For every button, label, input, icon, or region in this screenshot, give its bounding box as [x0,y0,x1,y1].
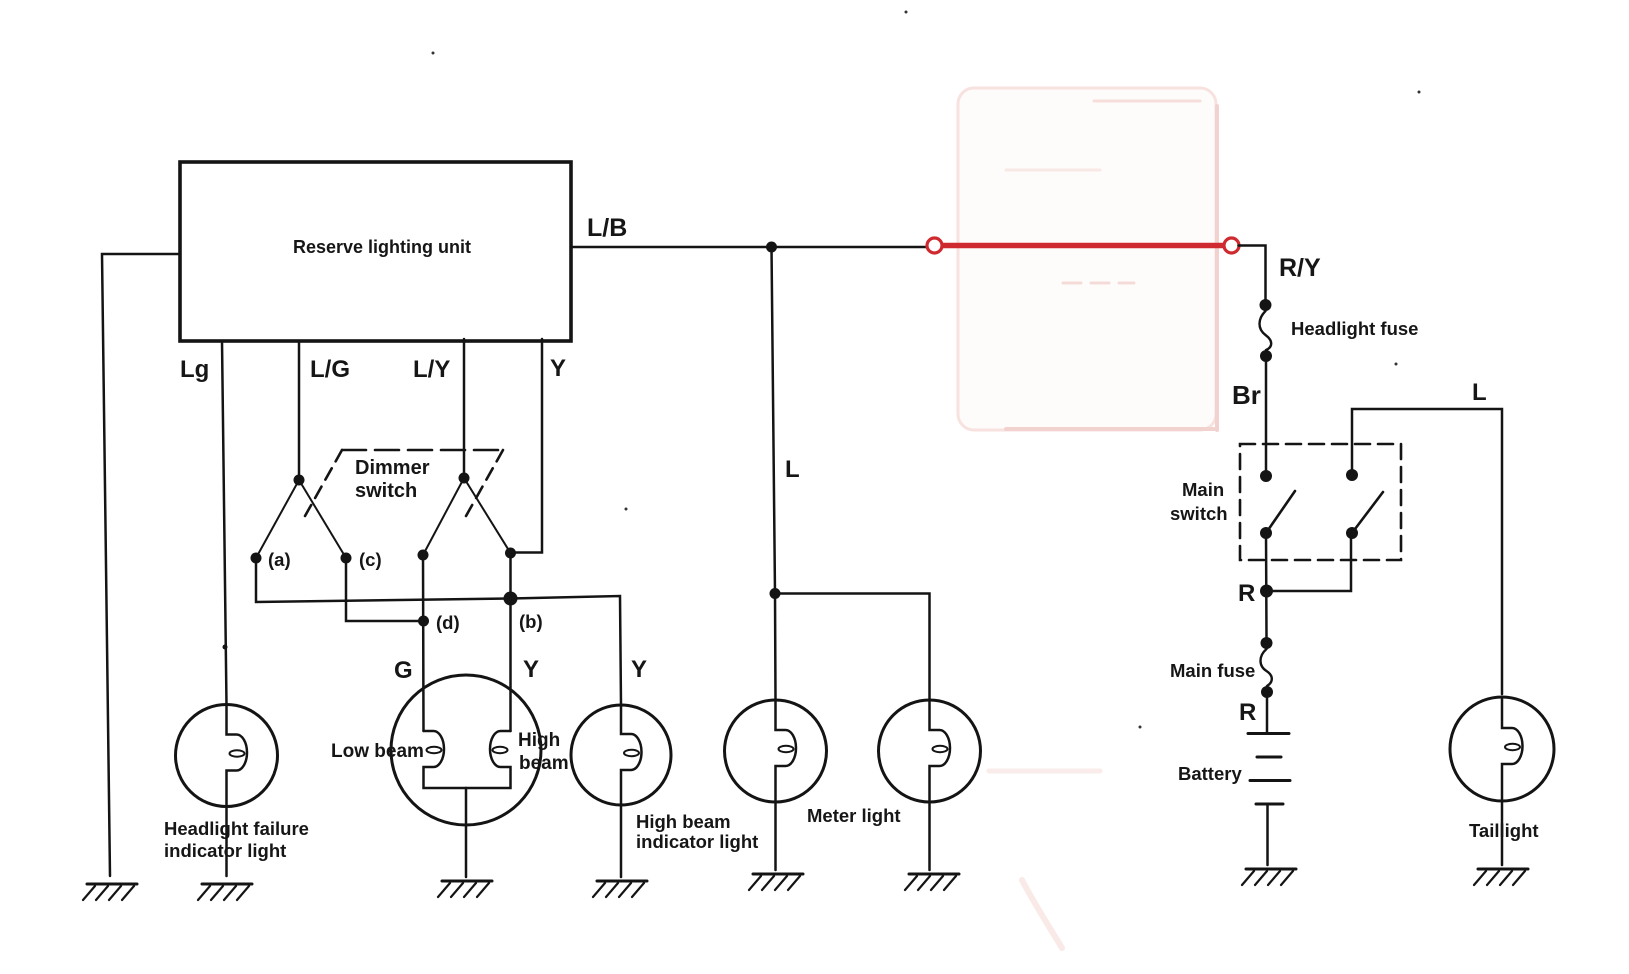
node (d) [418,616,429,627]
red highlighted wire [941,243,1225,249]
wire to meter lamp 1 [774,594,777,701]
wire branch to meter lamp 2 [775,594,930,701]
main switch left blade [1266,491,1295,533]
ground G2 [198,884,252,900]
ground G3 [438,881,492,897]
wire L/Y: box to dimmer pivot 2 [463,339,466,477]
svg-text:(c): (c) [359,549,382,570]
node (b) junction [504,592,518,606]
wire L/B: box right to red connector [571,246,928,249]
svg-text:(b): (b) [519,611,543,632]
svg-text:Main: Main [1182,479,1224,500]
headlight fuse F1 [1260,299,1272,311]
filament meter lamp 2 [930,700,951,802]
dimmer switch blades left [256,480,346,558]
scan specks [432,11,1421,729]
red connector ring right [1224,238,1239,253]
svg-text:Lg: Lg [180,356,209,383]
wire lamp to ground [225,806,228,876]
node (a) [251,553,262,564]
pink scan ghost area [958,88,1217,948]
svg-text:G: G [394,657,413,684]
wire L: junction down to meter lights [772,247,776,594]
filament of headlight failure lamp [227,705,248,806]
ground G4 [593,881,647,897]
dimmer switch blades right [423,478,511,555]
junction meter branch [770,588,781,599]
svg-text:indicator light: indicator light [164,840,286,861]
svg-text:switch: switch [1170,503,1228,524]
wire meter lamp 1 to ground [774,802,777,870]
wire fuse to battery [1266,692,1269,733]
wire L/G: box to dimmer pivot [298,341,301,479]
wire headlight to ground [465,788,468,877]
main switch dashed box [1240,444,1401,560]
wire: switch to R node and main fuse [1265,533,1268,637]
wire: (c) down and across to (d) [346,558,424,621]
svg-text:Y: Y [550,355,566,382]
svg-text:High beam: High beam [636,811,731,832]
wire Y: contact through (b) to high beam filament [509,553,512,731]
wire battery to ground [1266,804,1269,865]
filament taillight [1502,697,1523,801]
svg-text:L/B: L/B [587,214,627,242]
red connector ring left [927,238,942,253]
svg-text:switch: switch [355,480,417,502]
ground G1 [83,884,137,900]
wire meter lamp 2 to ground [928,802,931,870]
wire Lg: box to headlight failure lamp [222,341,227,705]
wire hbi lamp to ground [620,805,623,877]
wire taillight to ground [1501,801,1504,865]
svg-text:Main fuse: Main fuse [1170,660,1255,681]
svg-text:L: L [1472,379,1487,406]
wire G: dimmer contact through (d) to low beam filament [422,555,425,731]
svg-text:indicator light: indicator light [636,831,758,852]
junction on L/B wire [766,242,777,253]
main switch left contacts [1260,470,1272,482]
low beam filament [424,731,467,788]
junction speck on Lg wire [223,645,228,650]
svg-text:Headlight failure: Headlight failure [164,818,309,839]
wire L: main switch to taillight [1352,409,1502,694]
svg-text:High: High [518,730,560,751]
svg-text:Dimmer: Dimmer [355,457,430,479]
svg-text:Meter light: Meter light [807,805,901,826]
svg-text:Y: Y [631,656,647,683]
svg-text:Y: Y [523,656,539,683]
filament meter lamp 1 [776,700,797,802]
battery BT1 [1248,732,1289,735]
ground G8 [1474,869,1528,885]
main switch right blade [1352,492,1383,533]
meter lamp 2 [879,700,981,802]
svg-text:R/Y: R/Y [1279,254,1321,282]
svg-text:R: R [1238,580,1255,607]
wire Br: fuse to main switch [1265,356,1268,471]
dimmer switch dashed outline [342,449,503,452]
ground G6 [905,874,959,890]
wire: (a) down and across to high beam indicator [256,558,621,705]
taillight lamp [1450,697,1554,801]
svg-text:L/G: L/G [310,356,350,383]
dimmer pivot dots [294,475,305,486]
ground G7 [1242,869,1296,885]
svg-text:Battery: Battery [1178,763,1242,784]
node (c) [341,553,352,564]
headlight lamp circle [391,675,541,825]
svg-text:Br: Br [1232,380,1261,410]
node R [1260,585,1273,598]
wire: R node across and up to right contact [1267,533,1352,591]
contact dots of right dimmer [418,550,429,561]
svg-text:Low beam: Low beam [331,741,424,762]
high beam indicator lamp [571,705,671,805]
lamp: headlight failure indicator light [176,705,278,807]
svg-text:Headlight fuse: Headlight fuse [1291,318,1418,339]
reserve lighting unit U1 box [180,162,571,341]
main switch right contacts [1346,469,1358,481]
svg-text:beam: beam [519,753,569,774]
svg-text:L/Y: L/Y [413,356,450,383]
high beam filament [466,731,511,788]
svg-text:(d): (d) [436,612,460,633]
svg-text:Reserve lighting unit: Reserve lighting unit [293,237,471,257]
main fuse F2 [1261,637,1273,649]
svg-text:R: R [1239,699,1256,726]
filament of high beam indicator [621,705,642,805]
ground G5 [749,874,803,890]
wire R/Y: red connector to headlight fuse [1239,246,1266,302]
svg-text:(a): (a) [268,549,291,570]
svg-text:Taillight: Taillight [1469,820,1539,841]
wire Y: box down to right dimmer contact [512,339,542,553]
wire: box left to ground [102,254,180,876]
svg-text:L: L [785,456,800,483]
meter lamp 1 [725,700,827,802]
